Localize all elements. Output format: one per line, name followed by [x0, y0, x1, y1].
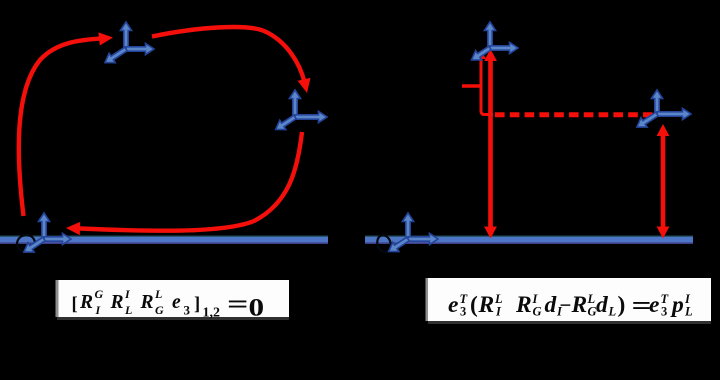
frame G ground (left diagram): x axis right arrow	[44, 233, 71, 244]
frame G ground (right diagram): x axis right arrow	[408, 233, 438, 244]
svg-text:e: e	[448, 292, 458, 318]
red loop arrow: ground frame G up to top frame I	[19, 38, 104, 216]
hand-drawn dark circle at ground-frame origin (right diagram)	[375, 233, 393, 253]
svg-text:R: R	[571, 292, 588, 318]
ground line (left diagram)	[0, 236, 328, 244]
svg-text:L: L	[154, 287, 162, 301]
svg-text:]: ]	[194, 295, 200, 315]
frame I top (right diagram): x axis right arrow	[490, 42, 518, 53]
frame G ground (left diagram): y axis down-left arrow	[24, 237, 45, 252]
svg-text:R: R	[515, 292, 532, 318]
svg-text:0: 0	[249, 294, 265, 321]
svg-text:−: −	[560, 293, 572, 317]
svg-text:(: (	[470, 292, 478, 318]
red loop arrow: right frame L back to ground frame G	[80, 132, 302, 231]
svg-text:R: R	[478, 292, 495, 318]
frame I top (left diagram): y axis down-left arrow	[105, 47, 127, 63]
frame G ground (right diagram): z axis up arrow	[402, 213, 413, 239]
red vertical double arrow under frame I (height of I above ground)	[488, 56, 493, 231]
frame L right (right diagram): z axis up arrow	[651, 90, 662, 114]
formula box right: white panel	[426, 278, 429, 321]
svg-text:R: R	[79, 292, 93, 313]
frame I top (right diagram): y axis down-left arrow	[472, 46, 492, 60]
frame G ground (left diagram): z axis up arrow	[38, 213, 49, 239]
red vertical double arrow under frame L (height of L above ground)	[661, 131, 666, 231]
formula right: e3^T (R_I^L R_G^I d_I - R_G^L d_L) = e3^T p_L^I	[448, 290, 693, 319]
svg-text:L: L	[124, 303, 132, 317]
svg-text:G: G	[533, 305, 542, 319]
red dashed horizontal line from I drop down to frame L origin	[495, 112, 658, 117]
thin red offset polyline with up arrowhead, from I origin down to dashed line level	[481, 55, 493, 115]
small red tick mark on offset polyline	[462, 84, 481, 87]
red loop arrow: top frame I to right frame L	[152, 27, 305, 82]
svg-text:p: p	[670, 292, 684, 318]
svg-text:3: 3	[184, 303, 191, 318]
svg-text:G: G	[95, 287, 104, 301]
frame I top (left diagram): z axis up arrow	[120, 22, 131, 49]
svg-text:R: R	[140, 292, 154, 313]
svg-text:d: d	[596, 292, 609, 318]
svg-text:[: [	[72, 295, 78, 315]
svg-text:R: R	[110, 292, 124, 313]
svg-text:3: 3	[460, 305, 466, 319]
formula left: [R_I^G R_L^I R_G^L e3]_{1,2} = 0	[72, 287, 265, 322]
ground line (right diagram)	[365, 236, 693, 244]
svg-text:3: 3	[661, 305, 667, 319]
svg-text:d: d	[545, 292, 558, 318]
frame I top (left diagram): x axis right arrow	[126, 43, 154, 54]
svg-text:L: L	[608, 305, 617, 319]
frame I top (right diagram): z axis up arrow	[484, 22, 495, 48]
frame L right (left diagram): y axis down-left arrow	[276, 115, 297, 129]
formula box left: white panel	[56, 280, 59, 317]
svg-text:G: G	[155, 303, 164, 317]
frame L right (right diagram): x axis right arrow	[657, 108, 691, 119]
svg-text:L: L	[684, 305, 693, 319]
frame L right (left diagram): z axis up arrow	[289, 90, 300, 117]
frame L right (left diagram): x axis right arrow	[295, 111, 327, 122]
frame G ground (right diagram): y axis down-left arrow	[389, 237, 410, 251]
frame L right (right diagram): y axis down-left arrow	[637, 112, 658, 127]
svg-text:e: e	[172, 292, 181, 313]
svg-text:): )	[618, 292, 626, 318]
hand-drawn dark circle at ground-frame origin (left diagram)	[15, 233, 37, 255]
svg-text:1,2: 1,2	[203, 306, 221, 321]
svg-text:=: =	[227, 290, 248, 319]
svg-text:e: e	[649, 292, 659, 318]
